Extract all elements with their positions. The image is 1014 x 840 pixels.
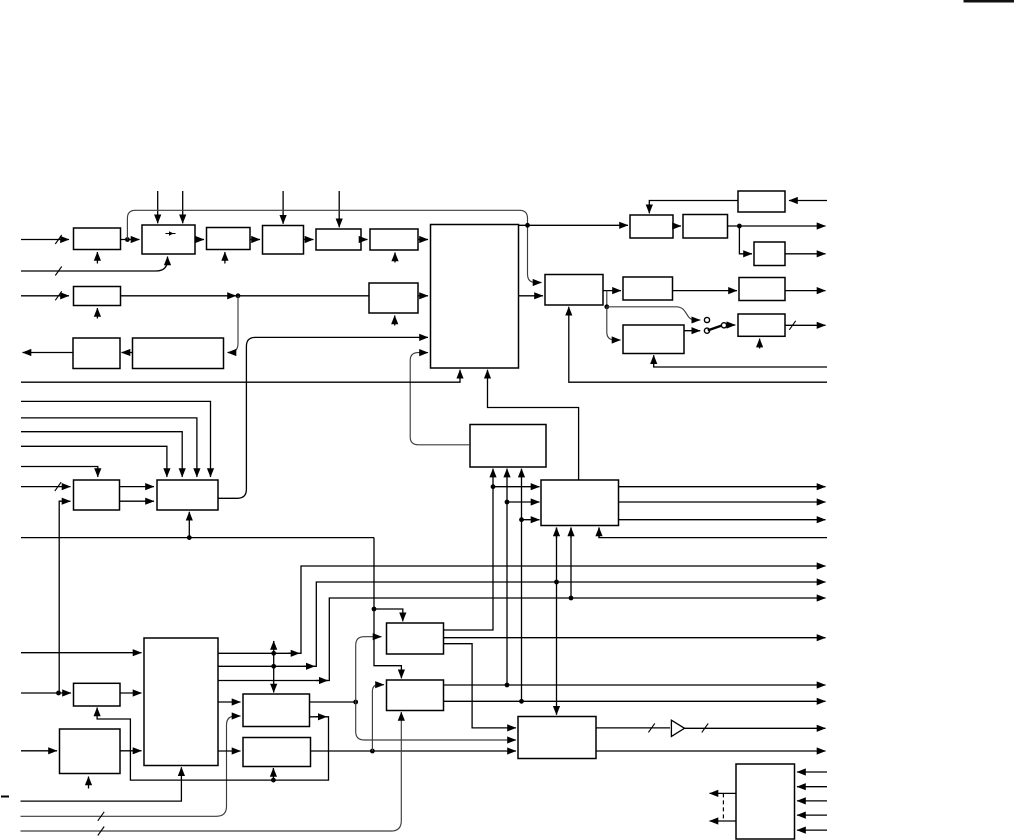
- wire into T1 from right: [789, 200, 827, 202]
- wire up into BY left: [372, 685, 384, 751]
- block A7: [370, 229, 418, 250]
- wire T6b to switch: [684, 330, 700, 332]
- stub arrow A7 bottom: [394, 253, 396, 263]
- block C2 (long latch): [133, 338, 224, 369]
- wire BX up to M: [444, 469, 494, 630]
- wire B4 to B2: [120, 750, 142, 752]
- wire T6 to T7: [673, 290, 738, 292]
- wire BL to BR a: [120, 486, 155, 488]
- block T7b (switched output stage): [738, 314, 785, 336]
- wire vB to R: [507, 501, 540, 503]
- block A5 (row2 input stage): [74, 287, 121, 306]
- wire B8 in1: [797, 771, 827, 773]
- wire into BL: [21, 486, 71, 488]
- wire y368 into T6b bottom: [654, 355, 827, 367]
- wire T5 branch down: [606, 291, 608, 307]
- wire A4 to A6: [304, 239, 314, 241]
- junction B6 bottom feed: [271, 778, 276, 783]
- bus slash T7b out: [789, 321, 795, 330]
- wire BR to IC via x247: [219, 337, 429, 498]
- block BX: [387, 623, 444, 654]
- wire A3 to A4: [250, 239, 260, 241]
- wire C1 output left: [23, 352, 74, 354]
- buffer amp triangle: [671, 720, 684, 736]
- junction bidir on line2: [271, 664, 276, 669]
- stub arrow B4 bottom: [88, 777, 90, 789]
- wire BY out1 up to M: [506, 469, 508, 685]
- bus slash B7 out1 pre: [648, 723, 654, 732]
- junction row2: [236, 293, 241, 298]
- block A8: [369, 283, 418, 313]
- block R (driver): [541, 480, 619, 526]
- wire buffer out: [685, 727, 826, 729]
- bus slash y831: [98, 827, 104, 836]
- wire bidir B5 top: [273, 641, 275, 693]
- bus slash y816: [98, 812, 104, 821]
- junction x59 y693: [56, 691, 61, 696]
- block B5: [243, 694, 310, 727]
- wire y382 T5 feedback: [569, 307, 827, 382]
- block T2: [630, 215, 673, 238]
- block B6: [243, 738, 311, 767]
- wire B8 in5: [797, 829, 827, 831]
- junction y598 end: [569, 596, 574, 601]
- stub arrow into A6 top: [338, 191, 340, 227]
- wire B2 to B5: [218, 701, 241, 703]
- wire A6 to A7: [361, 239, 368, 241]
- stub arrow into A4 top: [282, 191, 284, 224]
- wire feedback y210: [127, 210, 527, 239]
- wire R bottom to y537 right: [599, 528, 827, 538]
- wire row2 input: [21, 295, 69, 297]
- wire into B3: [21, 692, 71, 694]
- arrow glyph inside A2: [166, 231, 176, 235]
- junction IC top feedback: [525, 223, 530, 228]
- wire y801 into B2 bottom: [21, 767, 182, 801]
- block BR (matrix): [157, 480, 218, 510]
- wire B7 out2: [596, 750, 826, 752]
- wire B8 in4: [797, 814, 827, 816]
- junction BY out2 tap: [519, 699, 524, 704]
- block BL (decoder left): [74, 480, 120, 510]
- wire branch to switch top: [607, 307, 700, 320]
- wire B8 out2 left: [710, 820, 737, 822]
- wire B8 in3: [797, 800, 827, 802]
- block T6: [623, 277, 673, 300]
- block B2 (tall controller): [144, 638, 218, 766]
- wire B8 in2: [797, 786, 827, 788]
- wire branch to BX top: [374, 609, 403, 621]
- wire B7 out1 to buffer: [596, 727, 670, 729]
- junction vA to R: [491, 484, 496, 489]
- block B8 (bottom right interface): [736, 764, 795, 839]
- block A1 (row1 input stage): [74, 228, 121, 250]
- arrowhead B2 out1 corner: [288, 652, 300, 654]
- switch pole: [721, 323, 726, 328]
- stub arrow A5 bottom: [96, 308, 98, 319]
- wire BL to BR b: [120, 500, 155, 502]
- wire C2 to C1: [122, 352, 133, 354]
- page corner bar: [964, 0, 1014, 3]
- junction T5 branch: [604, 304, 609, 309]
- wire y831 to BY bottom: [21, 712, 402, 831]
- arrowhead R bottom a: [556, 528, 558, 539]
- wire IC top out to T2: [519, 224, 629, 226]
- wire up into B6 bottom: [272, 768, 274, 780]
- wire T7 out: [785, 290, 826, 292]
- wire row1 input: [21, 239, 69, 241]
- dashed link B8 outputs: [722, 793, 724, 821]
- block M (register): [470, 425, 546, 468]
- block T5: [545, 275, 603, 306]
- wire BX out2 long: [444, 637, 826, 639]
- wire B2 out1 to y566: [218, 566, 826, 653]
- wire BX out3 to B7 in1: [444, 644, 517, 728]
- block B7 (output mux): [518, 717, 596, 759]
- wire A1 to A2: [121, 239, 140, 241]
- junction y582 B7feed: [554, 580, 559, 585]
- wire y382 into IC bottom: [21, 370, 460, 382]
- junction row1 feedback: [125, 237, 130, 242]
- junction y537 to BR: [187, 535, 192, 540]
- switch contact top: [704, 317, 709, 322]
- stub arrow A3 bottom: [224, 252, 226, 264]
- wire nest L1: [21, 401, 211, 477]
- arrowhead B2 out2 corner: [303, 665, 315, 667]
- wire B3 to B2: [120, 692, 142, 694]
- wire switch pole to T7b: [727, 324, 736, 326]
- wire B5 loop to B3/B6: [97, 708, 328, 781]
- junction vC to R: [519, 517, 524, 522]
- wire M to IC left: [410, 353, 470, 445]
- margin dash: [1, 796, 9, 798]
- bus slash B7 out1 post: [702, 723, 708, 732]
- arrowhead B5 loop corner: [315, 716, 327, 718]
- junction T3 output: [737, 224, 742, 229]
- block T3: [683, 215, 728, 239]
- wire nest L4: [21, 446, 167, 477]
- wire x356 to B7 in2: [356, 702, 516, 740]
- wire x373 down: [374, 538, 401, 679]
- stub arrow A1 bottom: [96, 252, 98, 264]
- wire nest L2: [21, 418, 197, 477]
- block T6b: [623, 325, 684, 354]
- arrowhead R bottom b: [570, 528, 572, 539]
- wire x356 to BX: [356, 637, 382, 702]
- block T7: [739, 278, 785, 301]
- stub arrow into A2 top b: [182, 191, 184, 223]
- wire x59 into BL: [59, 501, 70, 693]
- wire A2 to A3: [195, 239, 204, 241]
- block A4: [263, 226, 304, 255]
- block A2 (row1 mixer stage): [142, 225, 195, 254]
- wire branch to T6b: [607, 307, 621, 340]
- junction B6 out: [370, 749, 375, 754]
- wire A7 to IC: [418, 239, 428, 241]
- switch lever: [708, 326, 722, 331]
- stub arrow T7b bottom: [759, 339, 761, 349]
- wire T7b out: [785, 324, 826, 326]
- wire T2 to T3: [673, 225, 681, 227]
- bus slash BL input: [55, 482, 61, 491]
- block B4: [60, 729, 121, 774]
- block A6: [316, 229, 361, 250]
- wire A5 to junction: [121, 295, 237, 297]
- wire row2 branch down to C2: [228, 296, 239, 353]
- wire y537 left: [21, 537, 374, 539]
- block B3: [74, 683, 121, 706]
- wire feedback down to T5: [528, 225, 542, 282]
- junction B5 out: [353, 700, 358, 705]
- wire IC to T5: [519, 295, 544, 297]
- wire B6 out to B7 in3: [311, 750, 517, 752]
- wire into B4: [21, 750, 57, 752]
- wire y816 to B5: [21, 716, 241, 816]
- wire R bottom to y582: [570, 528, 572, 599]
- wire B2 out3 to y598: [218, 598, 826, 681]
- wire nest L3: [21, 432, 182, 477]
- wire B8 out1 left: [710, 792, 737, 794]
- wire BY out1 long: [444, 684, 826, 686]
- switch contact bottom: [704, 328, 709, 333]
- stub arrow A8 bottom: [394, 316, 396, 326]
- block T4: [754, 242, 785, 266]
- wire into B2 in1: [21, 652, 142, 654]
- wire junction to A8: [238, 295, 369, 297]
- wire B2 out2 to y582: [218, 582, 826, 666]
- block T1 (top right): [738, 191, 785, 212]
- wire T5 to T6: [603, 290, 621, 292]
- wire B5 out to x356: [310, 701, 356, 703]
- junction vB to R: [505, 500, 510, 505]
- wire R bottom to B7 top: [556, 528, 558, 715]
- wire R out3: [619, 519, 826, 521]
- block C1 (left output stage): [73, 338, 120, 369]
- main IC U1: [431, 225, 519, 369]
- junction bidir on line1: [271, 651, 276, 656]
- bus slash A2 bottom wire: [55, 267, 61, 276]
- bus slash row1 input: [55, 235, 61, 244]
- wire T3 to right out: [728, 225, 826, 227]
- wire vC to R: [522, 519, 540, 521]
- wire into A2 bottom: [21, 257, 168, 272]
- wire BY out2 up to M: [521, 469, 523, 702]
- wire BY out2 long: [444, 700, 826, 702]
- bus slash row2 input: [55, 291, 61, 300]
- arrowhead B2 out3 corner: [316, 680, 328, 682]
- wire T4 out: [785, 253, 826, 255]
- wire T1 to T2 top: [649, 201, 738, 214]
- wire R out1: [619, 486, 826, 488]
- wire B2 to B6: [218, 750, 241, 752]
- junction BY out1 tap: [505, 683, 510, 688]
- wire A8 to IC: [418, 295, 428, 297]
- wire R out2: [619, 501, 826, 503]
- block BY: [387, 680, 444, 711]
- wire up into BR bottom: [188, 512, 190, 538]
- stub arrow into A2 top a: [157, 191, 159, 223]
- arrowhead R bottom c: [598, 528, 600, 539]
- wire R top to IC bottom: [488, 370, 579, 480]
- block A3: [207, 228, 251, 250]
- junction x373 at 609: [372, 607, 377, 612]
- wire nest L5: [21, 467, 98, 478]
- wire vA to R: [493, 486, 540, 488]
- arrowhead bidir up: [273, 641, 275, 650]
- wire junction down to T4: [739, 226, 752, 254]
